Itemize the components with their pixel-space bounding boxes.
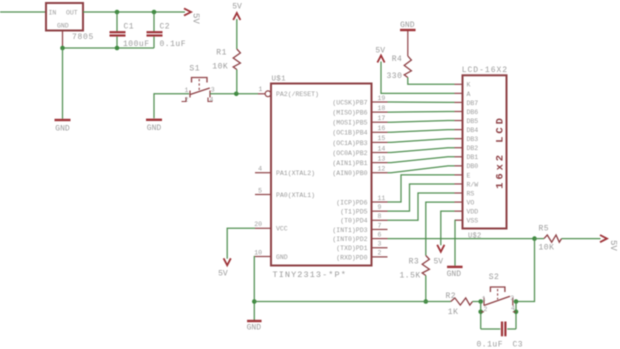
svg-text:2: 2	[484, 306, 488, 313]
LCD pin name E	[467, 172, 471, 179]
value 330 (R4)	[387, 72, 403, 81]
svg-text:(OC1A)PB3: (OC1A)PB3	[332, 140, 367, 147]
LCD pin name DB7	[467, 100, 479, 107]
U1 pin name (UCSK)PB7	[332, 99, 367, 106]
switch S2 blade	[484, 296, 510, 305]
wire capacitor ground rail	[63, 47, 155, 49]
LCD pin stub R/W	[455, 183, 463, 185]
junction dot S2 pin4	[514, 310, 519, 315]
label R5	[539, 225, 550, 234]
U1 pin name (INT1)PD3	[332, 227, 367, 234]
resistor R1 zigzag	[233, 49, 240, 70]
switch S1 pin number 4	[210, 97, 214, 104]
svg-text:R4: R4	[392, 55, 403, 64]
svg-text:4: 4	[210, 97, 214, 104]
svg-text:(OC1B)PB4: (OC1B)PB4	[332, 130, 367, 137]
U1 pin 8 stub ((T0)PD4)	[372, 219, 388, 221]
svg-text:LCD-16X2: LCD-16X2	[462, 66, 508, 75]
svg-text:1: 1	[259, 86, 263, 93]
svg-text:5V: 5V	[218, 270, 228, 279]
ground symbol under U1	[247, 320, 261, 322]
U1 pin number 7	[378, 222, 382, 229]
ground symbol under S1	[146, 119, 162, 121]
svg-text:10: 10	[254, 249, 262, 256]
switch S1 left contact stub	[189, 91, 191, 98]
LCD pin stub RS	[455, 192, 463, 194]
capacitor C1 plates	[110, 32, 126, 35]
U1 pin number 1	[259, 86, 263, 93]
svg-text:(T0)PD4: (T0)PD4	[340, 218, 367, 225]
wire U1 PB6 to LCD DB6	[388, 110, 455, 113]
capacitor C2 plates	[147, 32, 163, 35]
U1 pin number 6	[378, 231, 382, 238]
svg-text:6: 6	[378, 231, 382, 238]
svg-text:DB6: DB6	[467, 109, 479, 116]
supply 5V arrow up (R1 top)	[233, 13, 240, 20]
wire S1 to R1 junction to U1 pin1	[210, 93, 258, 95]
U1 pin name (AIN0)PB0	[332, 170, 367, 177]
svg-text:14: 14	[378, 145, 386, 152]
svg-text:VSS: VSS	[467, 218, 479, 225]
svg-text:C3: C3	[513, 340, 524, 349]
U1 pin name (AIN1)PB1	[332, 160, 367, 167]
U1 value label TINY2313	[273, 270, 347, 280]
wire junction to R5	[535, 238, 545, 240]
switch S2 pin number 4	[511, 305, 515, 312]
LCD pin stub DB4	[455, 129, 463, 131]
LCD pin stub DB2	[455, 147, 463, 149]
svg-text:GND: GND	[276, 254, 288, 261]
U1 pin 16 stub ((OC1B)PB4)	[372, 131, 388, 133]
value 10K (R1)	[212, 63, 228, 72]
U1 pin 3 stub ((TXD)PD1)	[372, 247, 388, 249]
svg-text:GND: GND	[55, 125, 70, 134]
net arrow 5V (right, points right)	[600, 235, 607, 242]
U1 pin number 11	[378, 195, 386, 202]
U1 pin 15 stub ((OC1A)PB3)	[372, 141, 388, 143]
svg-text:3: 3	[510, 295, 514, 302]
7805 pin name OUT	[66, 9, 78, 16]
ground label GND (under U1)	[247, 323, 262, 332]
svg-text:5V: 5V	[433, 257, 443, 266]
U1 pin number 14	[378, 145, 386, 152]
wire 5V to R1	[236, 19, 238, 49]
LCD pin name VO	[467, 199, 475, 206]
wire LCD VDD to 5V arrow	[441, 211, 455, 245]
svg-text:1.5K: 1.5K	[400, 272, 421, 281]
LCD pin name DB4	[467, 127, 479, 134]
wire S1 left to ground corner	[154, 94, 189, 119]
svg-text:VDD: VDD	[467, 209, 479, 216]
svg-text:8: 8	[378, 213, 382, 220]
value 0.1uF	[160, 40, 187, 49]
U1 pin name PA0(XTAL1)	[276, 192, 315, 199]
svg-text:PA0(XTAL1): PA0(XTAL1)	[276, 192, 315, 199]
supply 5V label (R1 top)	[232, 3, 242, 12]
LCD pin stub VDD	[455, 210, 463, 212]
U1 pin 14 stub ((OC0A)PB2)	[372, 152, 388, 154]
U1 pin 5 stub (PA0(XTAL1))	[255, 194, 271, 196]
ground label GND (below LCD)	[447, 270, 462, 279]
LCD pin name VDD	[467, 209, 479, 216]
LCD pin stub DB5	[455, 120, 463, 122]
U1 pin 13 stub ((AIN1)PB1)	[372, 162, 388, 164]
U1 pin name (T0)PD4	[340, 218, 367, 225]
svg-text:17: 17	[378, 115, 386, 122]
wire C2 top stub	[153, 12, 155, 31]
svg-text:VO: VO	[467, 199, 475, 206]
ground symbol above R4 (flipped)	[400, 29, 416, 31]
svg-text:S1: S1	[189, 65, 200, 74]
LCD pin name RS	[467, 190, 475, 197]
ground label GND (under 7805)	[55, 125, 70, 134]
svg-text:VCC: VCC	[276, 226, 288, 233]
svg-text:5V: 5V	[608, 240, 618, 251]
switch S2 pin 2 stub	[481, 311, 484, 313]
wire U1 VCC to 5V arrow	[227, 228, 255, 258]
svg-text:12: 12	[378, 166, 386, 173]
junction dot rail/gnd	[60, 46, 65, 51]
LCD pin stub A	[455, 92, 463, 94]
U1 pin 4 stub (PA1(XTAL2))	[255, 172, 271, 174]
svg-text:9: 9	[378, 204, 382, 211]
svg-text:330: 330	[387, 72, 403, 81]
U1 pin name (MISO)PB6	[332, 110, 367, 117]
switch S1 pin number 1	[185, 87, 189, 94]
wire gnd rail down to ground	[62, 48, 64, 119]
U1 pin 9 stub ((T1)PD5)	[372, 210, 388, 212]
svg-text:U$1: U$1	[272, 76, 287, 84]
U1 pin number 8	[378, 213, 382, 220]
U1 pin name (OC0A)PB2	[332, 150, 367, 157]
supply 5V arrow down (LCD VDD)	[437, 245, 444, 252]
svg-text:(AIN1)PB1: (AIN1)PB1	[332, 160, 367, 167]
U1 pin number 12	[378, 166, 386, 173]
label C2	[160, 23, 171, 32]
wire LCD VO to R3	[426, 202, 455, 255]
net arrow 5V (top rail, points right)	[184, 8, 191, 15]
svg-text:GND: GND	[147, 124, 162, 133]
U1 pin name (OC1A)PB3	[332, 140, 367, 147]
U1 pin 6 stub ((INT0)PD2)	[372, 238, 388, 240]
svg-text:R1: R1	[216, 49, 227, 58]
7805 pin name IN	[49, 9, 57, 16]
wire U1 PB5 to LCD DB5	[388, 121, 455, 123]
U1 pin number 18	[378, 105, 386, 112]
LCD pin name K	[467, 82, 471, 89]
switch S1 pin number 2	[185, 97, 189, 104]
LCD pin name DB0	[467, 163, 479, 170]
wire R5 to 5V net arrow	[562, 238, 601, 240]
U1 pin name (INT0)PD2	[332, 236, 367, 243]
svg-text:(RXD)PD0: (RXD)PD0	[336, 254, 367, 261]
svg-text:0.1uF: 0.1uF	[477, 340, 504, 349]
switch S2 pin number 3	[510, 295, 514, 302]
U1 pin name (MOSI)PB5	[332, 120, 367, 127]
svg-text:A: A	[467, 91, 471, 98]
wire S2 pin3 to pin4 to C3	[515, 302, 517, 330]
U1 pin number 13	[378, 155, 386, 162]
switch S2 right contact stub	[512, 298, 514, 306]
svg-text:PA2(/RESET): PA2(/RESET)	[276, 91, 319, 98]
junction dot C2/top rail	[152, 10, 157, 15]
svg-text:R5: R5	[539, 225, 550, 234]
svg-text:2: 2	[378, 250, 382, 257]
svg-text:5V: 5V	[375, 47, 385, 56]
svg-text:(ICP)PD6: (ICP)PD6	[336, 199, 367, 206]
7805 pin name GND	[57, 22, 69, 29]
wire U1 PB7 to LCD DB7	[388, 101, 455, 103]
svg-text:DB1: DB1	[467, 154, 479, 161]
junction dot R3/ground net	[424, 299, 429, 304]
junction dot PD2/R5/S2 net	[532, 236, 537, 241]
junction dot S2 pin3	[514, 299, 519, 304]
switch S1 right contact stub	[209, 91, 211, 98]
value 0.1uF (C3)	[477, 340, 504, 349]
LCD pin name DB3	[467, 136, 479, 143]
wire C1 top stub	[116, 12, 118, 31]
wire C3 right	[507, 328, 516, 330]
svg-text:TINY2313-*P*: TINY2313-*P*	[273, 270, 347, 280]
wire U1 PB3 to LCD DB3	[388, 139, 455, 143]
svg-text:GND: GND	[447, 270, 462, 279]
U1 pin 7 stub ((INT1)PD3)	[372, 228, 388, 230]
svg-text:10K: 10K	[539, 244, 555, 253]
wire U1 PD4 to LCD RS	[388, 193, 455, 220]
svg-text:IN: IN	[49, 9, 57, 16]
svg-text:DB3: DB3	[467, 136, 479, 143]
wire R4 to LCD K pin	[408, 78, 455, 85]
svg-text:DB0: DB0	[467, 163, 479, 170]
wire U1 PB4 to LCD DB4	[388, 130, 455, 133]
U1 pin 10 stub (GND)	[255, 256, 271, 258]
svg-text:1: 1	[482, 295, 486, 302]
wire C1 bottom stub	[116, 37, 118, 48]
switch S1 actuator bracket	[192, 78, 208, 91]
U1 pin name (T1)PD5	[340, 209, 367, 216]
wire U1 PB0 to LCD DB0	[388, 166, 455, 173]
LCD pin stub DB1	[455, 156, 463, 158]
LCD module U$2 box	[463, 75, 507, 228]
LCD inside label 16x2 LCD	[495, 115, 507, 189]
net label 5V rotated (top rail)	[191, 13, 201, 24]
wire junction down to S2 right	[516, 239, 535, 302]
U1 pin 19 stub ((UCSK)PB7)	[372, 101, 388, 103]
U1 pin number 16	[378, 125, 386, 132]
junction dot S2 pin2	[478, 310, 483, 315]
label R1	[216, 49, 227, 58]
U1 pin name VCC	[276, 226, 288, 233]
label R3	[409, 258, 420, 267]
supply 5V arrow down (U1 VCC)	[224, 258, 231, 265]
label R4	[392, 55, 403, 64]
U1 pin name (OC1B)PB4	[332, 130, 367, 137]
resistor R4 zigzag	[404, 56, 411, 78]
svg-text:11: 11	[378, 195, 386, 202]
LCD pin stub DB3	[455, 138, 463, 140]
svg-text:7: 7	[378, 222, 382, 229]
wire R2 to S2 left	[473, 301, 481, 303]
wire U1 PD2 to R5 junction	[388, 238, 535, 240]
svg-text:DB4: DB4	[467, 127, 479, 134]
svg-text:10K: 10K	[212, 63, 228, 72]
svg-text:C1: C1	[124, 23, 135, 32]
net label 5V rotated (right)	[608, 240, 618, 251]
svg-text:16x2 LCD: 16x2 LCD	[495, 115, 507, 189]
LCD pin stub DB6	[455, 110, 463, 112]
svg-text:(MOSI)PB5: (MOSI)PB5	[332, 120, 367, 127]
7805 value label	[72, 33, 94, 42]
U1 pin number 15	[378, 135, 386, 142]
svg-text:13: 13	[378, 155, 386, 162]
switch S1 label	[189, 65, 200, 74]
LCD pin stub VSS	[455, 219, 463, 221]
svg-text:19: 19	[378, 95, 386, 102]
wire C3 left	[481, 328, 501, 330]
wire C2 bottom stub	[153, 37, 155, 48]
svg-text:GND: GND	[247, 323, 262, 332]
LCD pin name DB1	[467, 154, 479, 161]
svg-text:R2: R2	[446, 292, 457, 301]
LCD pin stub VO	[455, 201, 463, 203]
resistor R3 zigzag	[422, 256, 429, 276]
LCD pin name DB2	[467, 145, 479, 152]
switch S1 pin 4 stub	[208, 98, 213, 102]
value 10K (R5)	[539, 244, 555, 253]
svg-text:K: K	[467, 82, 471, 89]
svg-text:(TXD)PD1: (TXD)PD1	[336, 245, 367, 252]
U1 pin 17 stub ((MOSI)PB5)	[372, 121, 388, 123]
U1 pin number 9	[378, 204, 382, 211]
LCD pin stub K	[455, 83, 463, 85]
U1 pin number 17	[378, 115, 386, 122]
U1 pin 11 stub ((ICP)PD6)	[372, 201, 388, 203]
U1 pin name (ICP)PD6	[336, 199, 367, 206]
LCD pin name R/W	[467, 181, 479, 188]
svg-text:DB5: DB5	[467, 118, 479, 125]
wire U1 PB1 to LCD DB1	[388, 157, 455, 163]
wire 5V rail from OUT to net arrow	[83, 11, 185, 13]
capacitor C3 plates (vertical)	[502, 322, 505, 337]
label C1	[124, 23, 135, 32]
LCD name label LCD-16X2	[462, 66, 508, 75]
switch S2 label	[489, 273, 500, 282]
switch S2 pin 4 stub	[513, 311, 516, 313]
wire U1 PD6 to LCD E	[388, 175, 455, 202]
supply 5V label (U1 VCC)	[218, 270, 228, 279]
svg-text:4: 4	[258, 166, 262, 173]
resistor R2 zigzag	[451, 298, 473, 305]
wire VIN input to regulator	[0, 11, 46, 13]
svg-text:R/W: R/W	[467, 181, 479, 188]
supply 5V arrow up (LCD A)	[377, 56, 384, 63]
U1 pin number 3	[378, 241, 382, 248]
LCD pin name DB6	[467, 109, 479, 116]
switch S2 actuator bracket	[490, 287, 505, 300]
svg-text:18: 18	[378, 105, 386, 112]
U1 pin 1 stub and inverting bubble	[258, 91, 271, 97]
junction dot S2 pin1	[478, 299, 483, 304]
LCD pin name DB5	[467, 118, 479, 125]
ground symbol below LCD VSS	[447, 266, 463, 268]
label C3	[513, 340, 524, 349]
U1 name label	[272, 76, 287, 84]
wire R1 to reset net	[236, 70, 238, 94]
junction dot C1 bottom	[115, 46, 120, 51]
U1 pin name PA1(XTAL2)	[276, 170, 315, 177]
svg-text:1: 1	[185, 87, 189, 94]
svg-text:(UCSK)PB7: (UCSK)PB7	[332, 99, 367, 106]
label R2	[446, 292, 457, 301]
svg-text:(OC0A)PB2: (OC0A)PB2	[332, 150, 367, 157]
LCD pin name VSS	[467, 218, 479, 225]
U1 pin number 19	[378, 95, 386, 102]
svg-text:RS: RS	[467, 190, 475, 197]
op IC U1 box	[271, 84, 372, 266]
U1 pin name GND	[276, 254, 288, 261]
switch S1 pin 2 stub	[182, 98, 187, 102]
svg-text:20: 20	[254, 221, 262, 228]
wire U1 PB2 to LCD DB2	[388, 148, 455, 153]
supply 5V label (LCD VDD)	[433, 257, 443, 266]
U1 pin number 20	[254, 221, 262, 228]
svg-text:R3: R3	[409, 258, 420, 267]
svg-text:(INT1)PD3: (INT1)PD3	[332, 227, 367, 234]
svg-text:0.1uF: 0.1uF	[160, 40, 187, 49]
U1 pin 18 stub ((MISO)PB6)	[372, 111, 388, 113]
wire U1 PD5 to LCD R/W	[388, 184, 455, 211]
U1 pin number 2	[378, 250, 382, 257]
switch S2 pin number 1	[482, 295, 486, 302]
wire 5V to LCD A pin	[381, 62, 455, 94]
svg-text:1K: 1K	[448, 308, 459, 317]
svg-text:5V: 5V	[191, 13, 201, 24]
svg-text:15: 15	[378, 135, 386, 142]
switch S2 left contact stub	[483, 298, 485, 306]
switch S1 blade	[189, 88, 209, 95]
U1 pin name (RXD)PD0	[336, 254, 367, 261]
wire S2 pin1 to pin2 to C3	[480, 302, 482, 330]
svg-text:3: 3	[211, 87, 215, 94]
junction dot R1/reset net	[234, 92, 239, 97]
junction dot C1/top rail	[115, 10, 120, 15]
svg-text:OUT: OUT	[66, 9, 78, 16]
svg-text:S2: S2	[489, 273, 500, 282]
svg-text:(AIN0)PB0: (AIN0)PB0	[332, 170, 367, 177]
wire LCD VSS to ground	[454, 220, 457, 266]
svg-text:DB7: DB7	[467, 100, 479, 107]
ground label GND (above R4)	[400, 21, 415, 30]
wire gnd to R4	[407, 31, 409, 56]
svg-text:C2: C2	[160, 23, 171, 32]
junction dot U1 gnd / button net	[252, 299, 257, 304]
svg-text:E: E	[467, 172, 471, 179]
LCD pin stub DB0	[455, 165, 463, 167]
U1 pin name PA2(/RESET)	[276, 91, 319, 98]
switch S2 pin number 2	[484, 306, 488, 313]
U1 pin number 10	[254, 249, 262, 256]
U1 pin name (TXD)PD1	[336, 245, 367, 252]
LCD pin name A	[467, 91, 471, 98]
ground label GND (under S1)	[147, 124, 162, 133]
ground symbol under 7805	[55, 119, 71, 121]
voltage regulator IC1 7805 body	[46, 3, 83, 31]
U1 pin 12 stub ((AIN0)PB0)	[372, 172, 388, 174]
value 100uF	[123, 40, 150, 49]
svg-text:7805: 7805	[72, 33, 94, 42]
svg-text:5V: 5V	[232, 3, 242, 12]
svg-text:(MISO)PB6: (MISO)PB6	[332, 110, 367, 117]
